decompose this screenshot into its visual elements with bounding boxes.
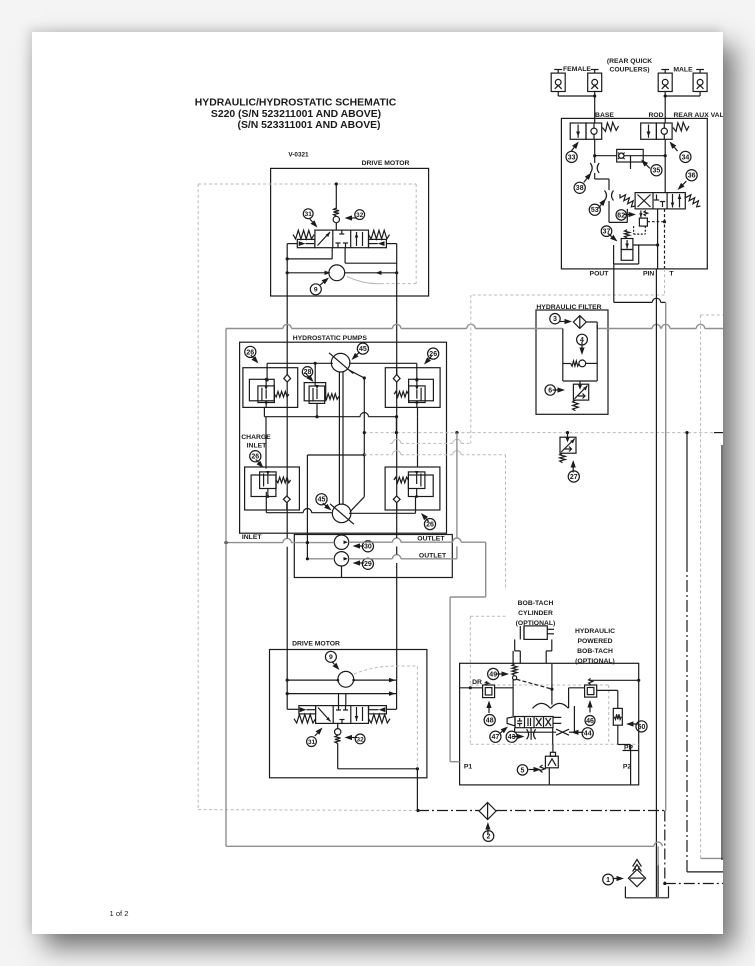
far right wire [721, 445, 723, 860]
wire relief 28 bottom [316, 403, 318, 416]
coupler [693, 73, 707, 91]
svg-text:45: 45 [318, 497, 326, 504]
charge gallery horizontal [264, 416, 360, 418]
aux vent dashed right [700, 315, 702, 858]
tank rail dashed [198, 809, 418, 812]
tank rail corner right [664, 811, 666, 884]
wire couplers female to base [557, 92, 559, 97]
wire through motor (rear) upper [287, 679, 338, 681]
svg-text:29: 29 [364, 561, 372, 568]
item 53 [589, 204, 600, 215]
svg-text:DR: DR [472, 679, 482, 686]
long line left through pumps [286, 342, 288, 375]
item 62 [616, 210, 626, 220]
spool pilot domes [533, 703, 569, 708]
svg-text:REAR AUX VALVE: REAR AUX VALVE [674, 112, 733, 119]
feedback link diagonal [517, 679, 552, 689]
item 31 (rear) [307, 737, 317, 747]
coupler [588, 73, 602, 91]
hydraulic filter enclosure [536, 310, 608, 414]
item 9 (rear) [325, 651, 336, 662]
svg-text:(REAR QUICK: (REAR QUICK [607, 58, 652, 65]
motor circle (rear) [338, 671, 354, 687]
item 3 [550, 314, 560, 324]
pump 2 swash line [330, 504, 354, 525]
svg-text:49: 49 [489, 671, 497, 678]
item 31 (front) [303, 209, 313, 219]
spring left of spool 36 [620, 194, 635, 207]
charge to P1 gray loop [485, 542, 487, 597]
right arrow plate (front spool) [369, 239, 387, 247]
left arrow plate (front spool) [297, 239, 315, 247]
item 1 [603, 874, 614, 885]
item 38 [574, 182, 585, 193]
DR wire [460, 687, 483, 689]
drive motor (front) enclosure [271, 168, 429, 296]
rear motor feedback dashes [354, 666, 417, 769]
item 27 [568, 471, 579, 482]
return gray wire out of filter [597, 328, 652, 330]
item 36 [686, 170, 697, 181]
wire to pilot check [595, 155, 617, 157]
spring of valve 34 [673, 122, 689, 131]
pump 1 circle [331, 353, 350, 372]
svg-text:3: 3 [553, 316, 557, 323]
orifice 44 X [556, 729, 569, 735]
wire rod valve down to spool [664, 139, 666, 192]
P2 drop [630, 745, 632, 785]
wire 46 left [569, 687, 585, 689]
svg-text:26: 26 [426, 522, 434, 529]
svg-text:34: 34 [682, 154, 690, 161]
pump ports box [294, 535, 452, 578]
item 26 bottom-right [424, 519, 435, 530]
item 32 (front) [355, 210, 365, 220]
item 32 (rear) [355, 734, 365, 744]
svg-text:43: 43 [508, 734, 516, 741]
svg-text:CYLINDER: CYLINDER [518, 610, 553, 617]
svg-text:POWERED: POWERED [577, 638, 612, 645]
wire through motor (front) [287, 272, 329, 274]
svg-text:HYDRAULIC/HYDROSTATIC SCHEMATI: HYDRAULIC/HYDROSTATIC SCHEMATIC [195, 98, 397, 109]
pump shaft lines [338, 372, 340, 504]
svg-text:44: 44 [584, 731, 592, 738]
item 30 [362, 541, 373, 552]
rear motor drain loop [337, 743, 339, 768]
T return dashed vertical [664, 269, 666, 295]
item 26 top-right [428, 348, 439, 359]
item 4 [577, 334, 588, 345]
svg-text:31: 31 [305, 211, 313, 218]
servo line right of shaft [349, 370, 364, 378]
svg-text:6: 6 [548, 387, 552, 394]
svg-text:PIN: PIN [643, 270, 654, 277]
item 45 bottom [316, 494, 327, 505]
T return dashed from spool [664, 209, 666, 269]
strainer 1 vent chevrons [633, 860, 642, 872]
orifice 38 [594, 156, 596, 163]
inlet-outlet jumper dots [306, 541, 309, 544]
item 26 charge inlet [250, 451, 261, 462]
reservoir bracket [624, 887, 626, 898]
pressure reducing valve 37 [625, 230, 630, 238]
svg-text:S220 (S/N 523211001 AND ABOVE): S220 (S/N 523211001 AND ABOVE) [211, 109, 381, 120]
POUT wire [613, 264, 615, 269]
spool valve 36 body [635, 193, 685, 209]
bypass check valve [571, 361, 579, 366]
orifice spring 49 [512, 664, 517, 676]
svg-text:(OPTIONAL): (OPTIONAL) [575, 658, 615, 665]
svg-text:32: 32 [356, 212, 364, 219]
spring right of spool 36 [685, 194, 700, 207]
svg-text:33: 33 [568, 154, 576, 161]
svg-text:5: 5 [521, 767, 525, 774]
servo supply horizontal [307, 454, 364, 456]
wire relief 28 top [267, 362, 333, 364]
supply wire into motor valve [335, 184, 337, 209]
svg-text:INLET: INLET [247, 443, 267, 450]
breather valve 27 [567, 433, 569, 440]
diagonal to pump 2 [350, 497, 364, 512]
filter inner circuit rect [562, 329, 564, 382]
valve feed lines [514, 728, 516, 733]
svg-text:1 of 2: 1 of 2 [110, 909, 129, 918]
travel spool (front motor) [315, 230, 369, 248]
charge relief block top-left (26) [243, 368, 298, 408]
item 6 [545, 385, 555, 395]
pilot operated check valve 35 [617, 149, 644, 162]
wire through motor (rear) lower [287, 693, 396, 695]
svg-text:(S/N 523311001 AND ABOVE): (S/N 523311001 AND ABOVE) [237, 120, 380, 131]
check valve 32 (front motor) [334, 208, 340, 216]
coupler [551, 73, 565, 91]
gallery to lower blocks [265, 417, 267, 469]
svg-text:FEMALE: FEMALE [563, 66, 591, 73]
inlet gray wire [226, 542, 283, 544]
wire front motor to pumps left [286, 296, 288, 342]
svg-text:30: 30 [364, 544, 372, 551]
svg-text:CHARGE: CHARGE [241, 434, 271, 441]
svg-text:50: 50 [638, 724, 646, 731]
travel spool (rear motor) [316, 706, 369, 724]
solenoid valve 33 BASE [570, 123, 586, 139]
item 43 [506, 731, 517, 742]
item 26 top-left [245, 346, 256, 357]
svg-text:26: 26 [246, 349, 254, 356]
svg-text:27: 27 [570, 474, 578, 481]
item 48 [484, 715, 495, 726]
bob-tach cylinder [524, 626, 547, 640]
wires valve to motor (front) [287, 243, 297, 245]
svg-text:53: 53 [591, 207, 599, 214]
pump 2 circle [332, 504, 351, 523]
hydrostatic pumps enclosure [240, 342, 447, 533]
svg-text:48: 48 [486, 718, 494, 725]
reservoir gray return [226, 845, 654, 847]
charge pump circle 29 [334, 552, 348, 566]
wires into rear spool [286, 680, 288, 709]
relief valve 62 [640, 211, 642, 219]
bob-tach enclosure [460, 663, 639, 785]
item 46 [585, 716, 595, 726]
svg-text:DRIVE MOTOR: DRIVE MOTOR [292, 640, 340, 647]
bypass valve 6 [573, 384, 588, 400]
svg-text:MALE: MALE [673, 67, 693, 74]
outlet upper gray wire [349, 541, 393, 543]
wire base valve down [594, 139, 596, 155]
spring right (front spool) [369, 230, 390, 239]
svg-text:P1: P1 [464, 764, 473, 771]
svg-text:HYDRAULIC: HYDRAULIC [575, 628, 615, 635]
wire 46 top rail [591, 679, 639, 681]
relief valve 5 [545, 756, 558, 768]
bob-tach spool valve [515, 717, 553, 728]
orifice 43 [527, 729, 529, 739]
right arrow plate (rear spool) [369, 706, 387, 714]
svg-text:BOB-TACH: BOB-TACH [518, 600, 554, 607]
return gray wire into filter [226, 328, 283, 330]
svg-text:62: 62 [617, 212, 625, 219]
solenoid valve 34 ROD [641, 123, 657, 139]
item 35 [651, 165, 662, 176]
svg-text:BOB-TACH: BOB-TACH [577, 648, 613, 655]
case drain dashed lower [390, 442, 393, 444]
charge relief 28 middle [304, 383, 326, 401]
pump 2 feed left [265, 492, 267, 513]
item 44 [582, 728, 593, 739]
bob-tach dashed pilot box [470, 615, 505, 617]
svg-text:38: 38 [576, 185, 584, 192]
pump 2 feed right [349, 512, 416, 514]
check valve 2 diamond [479, 803, 496, 820]
svg-text:47: 47 [492, 734, 500, 741]
item 29 [362, 558, 373, 569]
svg-text:ROD: ROD [648, 112, 663, 119]
drain valve 48 [483, 685, 495, 698]
charge case gray vertical [456, 433, 458, 538]
spring of valve 33 [602, 122, 618, 131]
strainer 1 diamond [628, 870, 645, 887]
svg-text:INLET: INLET [242, 534, 262, 541]
drive motor circle (front) [329, 265, 345, 281]
svg-text:COUPLERS): COUPLERS) [609, 67, 649, 74]
item 28 [302, 367, 312, 377]
item 49 [488, 668, 499, 679]
wire to thermal bypass [579, 381, 581, 387]
wire 46 right to filter [597, 689, 618, 691]
drive motor (rear) enclosure [270, 650, 427, 778]
item 50 [636, 721, 647, 732]
svg-text:45: 45 [359, 346, 367, 353]
cylinder mount steps [514, 639, 516, 651]
dashed pilot line across top [198, 183, 416, 185]
outer dashed harness left vertical [197, 184, 199, 810]
wire spool to PIN port [657, 209, 659, 269]
svg-text:26: 26 [251, 454, 259, 461]
charge relief block bottom-left (26) [245, 467, 300, 510]
coupler [658, 73, 672, 91]
svg-text:HYDROSTATIC PUMPS: HYDROSTATIC PUMPS [293, 335, 368, 342]
left arrow plate (rear spool) [299, 706, 316, 714]
svg-text:T: T [669, 270, 674, 277]
item 2 [483, 831, 494, 842]
wire front motor to pumps right [396, 296, 398, 342]
pump 1 swash line [329, 353, 353, 374]
charge drain down [341, 566, 343, 578]
long line right through pumps [396, 342, 398, 375]
rear aux valve enclosure [561, 118, 707, 269]
spring left (rear spool) [294, 714, 316, 723]
suction into reservoir [657, 865, 659, 897]
dashed jog to bob-tach [364, 454, 392, 456]
svg-text:31: 31 [308, 739, 316, 746]
svg-text:OUTLET: OUTLET [417, 535, 445, 542]
svg-text:36: 36 [688, 173, 696, 180]
wires pumps to rear motor [286, 532, 288, 538]
svg-text:DRIVE MOTOR: DRIVE MOTOR [362, 160, 410, 167]
spring right (rear spool) [369, 714, 391, 723]
item 34 [680, 151, 691, 162]
case drain dashed main [364, 432, 716, 434]
svg-text:1: 1 [606, 877, 610, 884]
item 9 (front) [310, 284, 321, 295]
case drain right vertical [686, 433, 688, 560]
filter 50 [613, 708, 622, 725]
charge relief block top-right (26) [385, 368, 440, 408]
svg-text:9: 9 [329, 654, 333, 661]
svg-text:BASE: BASE [595, 112, 614, 119]
filter element diamond 3 [573, 316, 586, 329]
item 45 top [357, 343, 368, 354]
relief valve 46 [585, 685, 597, 697]
svg-text:35: 35 [653, 168, 661, 175]
spring left (front spool) [293, 230, 314, 239]
item 47 [490, 731, 501, 742]
outlet lower gray wire [307, 558, 334, 560]
charge relief block bottom-right (26) [385, 467, 440, 510]
svg-text:46: 46 [586, 718, 594, 725]
item 33 [566, 151, 577, 162]
svg-text:POUT: POUT [590, 270, 610, 277]
check valve 32 (rear) [337, 723, 339, 728]
svg-text:32: 32 [357, 736, 365, 743]
charge pump circle 30 [334, 535, 348, 549]
POUT return path [613, 269, 615, 303]
motor feedback link (front) [347, 277, 381, 284]
svg-text:9: 9 [314, 287, 318, 294]
item 5 [517, 765, 527, 775]
wire couplers male to rod [699, 92, 701, 97]
item 37 [601, 226, 612, 237]
svg-text:V-0321: V-0321 [288, 152, 309, 159]
orifice 53 [605, 191, 607, 201]
PIN suction line [655, 269, 657, 897]
cylinder port lines [512, 651, 514, 664]
drain exit rear motor [416, 769, 418, 811]
